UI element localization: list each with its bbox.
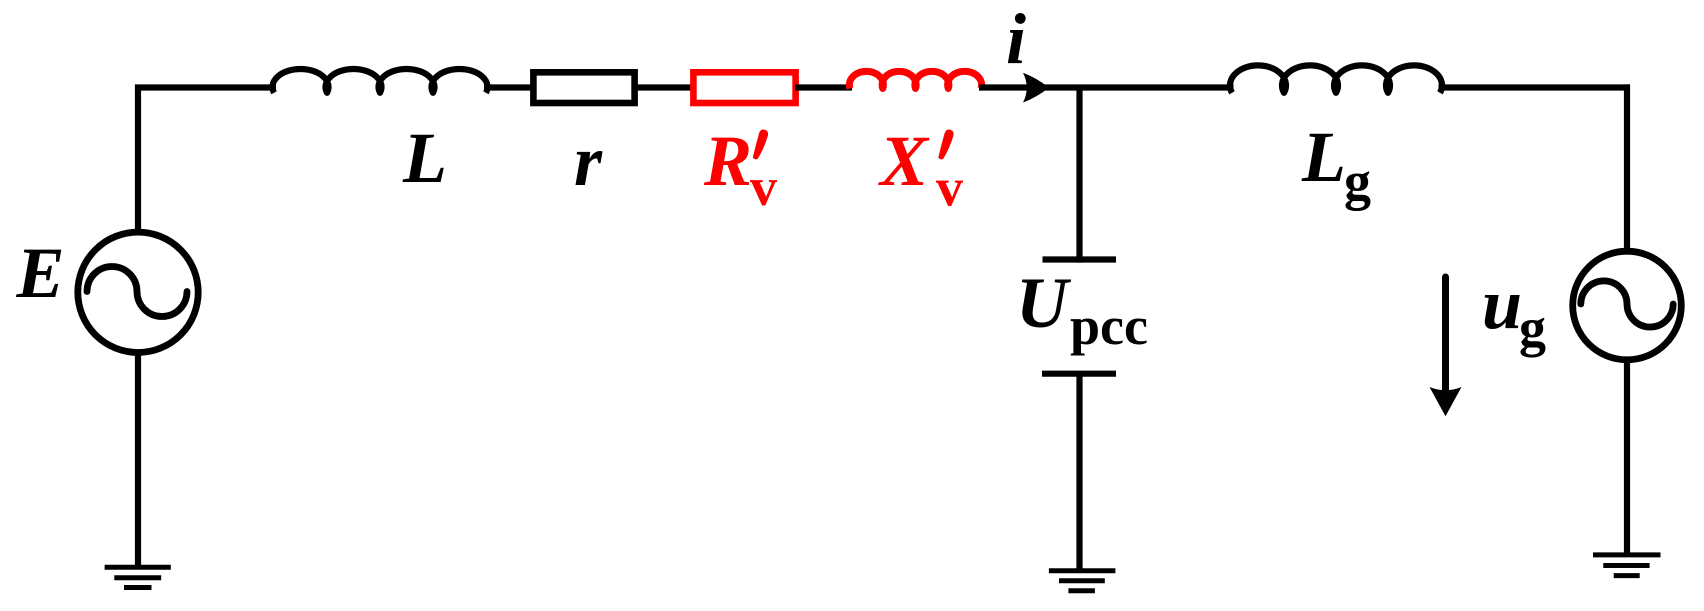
svg-text:i: i: [1006, 0, 1026, 79]
voltage arrow ug head: [1430, 387, 1462, 416]
inductor X'v (red virtual reactance coil): [849, 71, 981, 88]
Upcc lower bar: [1042, 371, 1116, 377]
svg-text:U: U: [1016, 263, 1072, 343]
sine inside ug: [1581, 281, 1673, 327]
svg-text:E: E: [16, 233, 65, 313]
wire left vertical + top-left corner: [138, 88, 276, 233]
wire Upcc to ground: [1076, 374, 1082, 569]
inductor Lg: [1230, 65, 1442, 92]
svg-text:g: g: [1519, 298, 1546, 358]
inductor L: [273, 69, 488, 93]
prime of R'v: [753, 130, 768, 160]
source E circle: [78, 232, 198, 352]
Upcc upper bar: [1043, 256, 1117, 262]
ground under E: [105, 567, 171, 587]
wire right vertical (grid corner): [1624, 84, 1630, 252]
source ug circle: [1573, 251, 1682, 360]
svg-text:r: r: [574, 121, 603, 201]
svg-text:g: g: [1344, 151, 1371, 211]
svg-text:u: u: [1482, 264, 1522, 344]
wire r to Rv: [634, 84, 694, 90]
node PCC vertical stub: [1076, 88, 1082, 263]
wire L to r: [484, 84, 535, 90]
svg-text:R: R: [703, 121, 752, 201]
svg-text:L: L: [1301, 117, 1346, 197]
svg-text:v: v: [936, 158, 963, 218]
ground under Upcc: [1049, 571, 1116, 591]
svg-text:v: v: [750, 157, 777, 217]
wire Rv to Xv: [795, 84, 852, 90]
ground under ug: [1593, 555, 1661, 576]
wire Xv to Lg (passes PCC node): [979, 84, 1234, 90]
svg-text:X: X: [878, 121, 930, 201]
prime of X'v: [938, 130, 953, 160]
resistor R'v (red virtual resistor): [693, 72, 795, 103]
svg-text:pcc: pcc: [1070, 296, 1148, 356]
current arrow i head: [1023, 73, 1049, 103]
sine inside E: [87, 267, 187, 317]
voltage arrow ug: [1442, 277, 1449, 390]
wire E to ground: [135, 352, 141, 565]
resistor r: [533, 72, 634, 103]
svg-text:L: L: [402, 118, 447, 198]
wire Lg to grid corner: [1439, 84, 1631, 90]
wire ug to ground: [1624, 360, 1630, 553]
